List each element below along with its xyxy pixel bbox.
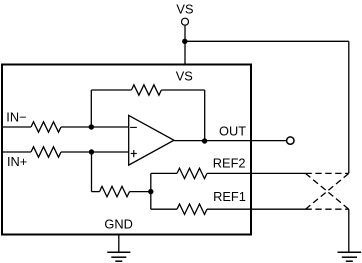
wire dashed cross diagonal REF1-to-VS xyxy=(306,173,349,209)
wire dashed REF2 horizontal (optional connection) xyxy=(306,172,349,174)
junction node inverting input xyxy=(89,124,94,129)
ground (bottom) xyxy=(107,252,130,261)
svg-text:REF1: REF1 xyxy=(213,189,246,204)
wire feedback left vertical xyxy=(90,90,92,127)
wire feedback top left segment xyxy=(91,89,131,91)
wire dashed cross diagonal REF2-to-GND xyxy=(306,173,349,209)
wire VS pin down to box xyxy=(184,26,186,64)
wire resistor to REF junction xyxy=(130,191,151,193)
IC package outline box xyxy=(2,65,251,235)
pin terminal VS (open circle) xyxy=(182,18,189,25)
wire feedback right vertical to output xyxy=(204,90,206,141)
wire IN+ input xyxy=(2,151,31,153)
svg-text:OUT: OUT xyxy=(219,124,246,139)
junction node non-inverting input xyxy=(89,149,94,154)
svg-text:IN+: IN+ xyxy=(7,154,27,169)
resistor R3 (IN+ input) xyxy=(31,147,61,157)
wire IN- input xyxy=(2,126,31,128)
wire REF1 to crossing box xyxy=(207,208,306,210)
resistor R1 (IN- input) xyxy=(31,122,61,132)
svg-text:IN−: IN− xyxy=(6,109,26,124)
wire REF2 left segment xyxy=(151,172,177,174)
wire REF2 to crossing box xyxy=(207,172,306,174)
wire IN- resistor to op-amp inverting input xyxy=(61,126,129,128)
wire right-side vertical to ground xyxy=(348,209,350,252)
wire dashed REF1 horizontal (optional connection) xyxy=(306,208,349,210)
wire IN+ node down vertical xyxy=(91,152,93,192)
resistor R2 (feedback) xyxy=(131,85,161,95)
wire IN+ resistor to op-amp non-inverting input xyxy=(61,151,129,153)
svg-text:VS: VS xyxy=(176,68,193,83)
wire REF1 left segment xyxy=(151,208,177,210)
junction node output xyxy=(202,138,207,143)
ground (right) xyxy=(338,252,362,261)
wire op-amp output xyxy=(174,140,286,142)
wire VS junction to right edge xyxy=(185,40,349,42)
wire REF junction vertical xyxy=(150,173,152,209)
svg-text:VS: VS xyxy=(176,1,193,16)
wire IN+ node bottom horizontal to resistor xyxy=(92,191,100,193)
junction node REF xyxy=(148,189,153,194)
wire GND stem xyxy=(118,235,120,252)
svg-text:GND: GND xyxy=(104,217,132,232)
resistor R6 (REF1) xyxy=(177,204,207,214)
resistor R4 (ground leg) xyxy=(100,186,130,196)
svg-text:REF2: REF2 xyxy=(213,155,246,170)
junction node VS xyxy=(182,39,187,44)
resistor R5 (REF2) xyxy=(177,168,207,178)
wire feedback top right segment xyxy=(161,89,204,91)
wire right-side vertical from VS to crossing box xyxy=(348,41,350,173)
op-amp U1 xyxy=(129,115,174,165)
pin terminal OUT (open circle) xyxy=(287,137,294,144)
